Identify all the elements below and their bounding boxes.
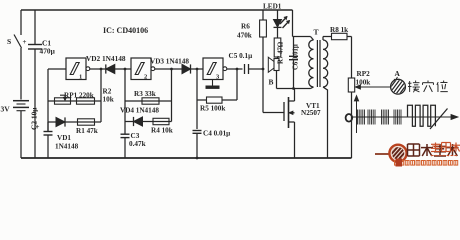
svg-text:RP2: RP2 [357, 70, 371, 78]
svg-text:+: + [23, 38, 27, 46]
svg-text:C4 0.01μ: C4 0.01μ [203, 130, 230, 138]
svg-text:R5 100k: R5 100k [200, 105, 225, 113]
svg-text:VD1: VD1 [57, 134, 71, 142]
svg-text:3V: 3V [1, 105, 11, 114]
svg-text:T: T [314, 28, 319, 37]
svg-text:C5 0.1μ: C5 0.1μ [229, 52, 253, 60]
svg-text:S: S [7, 37, 11, 46]
svg-text:0.47k: 0.47k [129, 140, 146, 148]
svg-text:R4 10k: R4 10k [151, 127, 173, 135]
svg-text:C3: C3 [131, 132, 140, 140]
svg-text:470μ: 470μ [40, 47, 56, 56]
svg-text:10k: 10k [103, 96, 114, 104]
svg-text:R8 1k: R8 1k [330, 26, 348, 34]
svg-text:100k: 100k [356, 79, 371, 87]
svg-text:470k: 470k [237, 32, 252, 40]
svg-text:R1 47k: R1 47k [76, 127, 98, 135]
svg-text:C6 0.01μ: C6 0.01μ [293, 44, 300, 70]
svg-text:IC: CD40106: IC: CD40106 [103, 26, 148, 35]
svg-text:C2 10μ: C2 10μ [30, 107, 39, 130]
svg-text:R3 33k: R3 33k [134, 90, 156, 98]
svg-text:N2507: N2507 [301, 109, 321, 117]
svg-text:VD2 1N4148: VD2 1N4148 [86, 54, 126, 63]
svg-text:1: 1 [79, 74, 82, 81]
svg-text:LED1: LED1 [263, 3, 282, 11]
svg-text:R6: R6 [241, 23, 250, 31]
svg-text:RP1 220k: RP1 220k [64, 92, 94, 100]
svg-text:B: B [269, 78, 274, 87]
svg-text:A: A [395, 69, 401, 78]
svg-text:2: 2 [144, 74, 147, 81]
svg-text:VD3 1N4148: VD3 1N4148 [150, 58, 189, 66]
svg-text:VD4 1N4148: VD4 1N4148 [120, 107, 159, 115]
svg-text:1N4148: 1N4148 [55, 143, 79, 151]
svg-text:R2: R2 [103, 88, 112, 96]
